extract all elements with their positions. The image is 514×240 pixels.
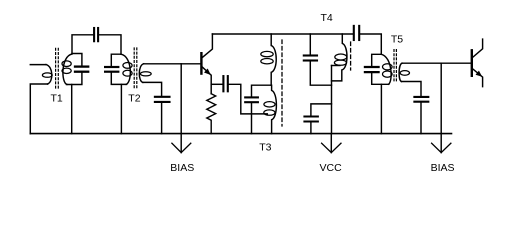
transformer T2 primary winding	[121, 54, 130, 84]
arrowhead VCC	[322, 143, 341, 152]
wire T4 lower cap branch	[311, 104, 332, 116]
wire T4 upper cap down	[310, 61, 331, 85]
wire T1 secondary to ground	[71, 85, 73, 134]
transformer T5 secondary winding	[399, 63, 402, 81]
transistor Q2 base bar	[471, 50, 473, 76]
transformer T3 core	[281, 40, 283, 126]
wire T5 secondary to Q2 base	[402, 62, 471, 64]
transformer T5 primary winding	[381, 54, 391, 84]
wire T5 tank top	[372, 54, 382, 66]
node input terminal	[30, 64, 46, 66]
wire lower cap to rail	[310, 123, 312, 134]
wire C1 to T2	[99, 35, 121, 54]
resistor R1 emitter	[207, 94, 216, 134]
capacitor C1 coupling	[93, 28, 95, 41]
transformer T1 core	[55, 48, 57, 88]
wire cap to ground rail	[161, 103, 163, 134]
capacitor T4 lower	[304, 116, 318, 118]
arrowhead Q2 emitter	[476, 71, 483, 77]
transformer T2 secondary winding	[139, 64, 143, 83]
wire T2 tank bottom	[111, 73, 126, 85]
svg-text:T4: T4	[321, 12, 333, 24]
wire VCC feed	[330, 134, 332, 153]
wire BIAS feed 2	[440, 63, 442, 152]
svg-text:T3: T3	[259, 142, 271, 154]
capacitor T4 upper	[304, 54, 317, 56]
transistor Q2 collector	[473, 39, 483, 57]
wire T4 tap	[332, 65, 340, 67]
capacitor C emitter bypass	[222, 76, 224, 91]
transformer T4 core	[350, 42, 352, 70]
wire T2 secondary to Q1 base	[144, 63, 201, 65]
wire cap to T5	[360, 34, 381, 54]
wire T1 primary return to ground	[30, 84, 47, 134]
transistor Q2 emitter	[473, 69, 483, 87]
svg-text:BIAS: BIAS	[431, 162, 455, 174]
wire cap to ground	[420, 103, 422, 134]
wire rail to T4 upper cap	[309, 34, 311, 55]
transformer T3 lower winding	[272, 85, 277, 133]
transformer T4 winding	[332, 34, 347, 81]
arrowhead BIAS 2	[432, 143, 451, 152]
svg-text:BIAS: BIAS	[170, 162, 194, 174]
wire T2 secondary bottom to cap	[143, 82, 162, 95]
svg-text:T2: T2	[128, 93, 140, 105]
capacitor T1 tank	[75, 65, 88, 67]
wire T1 secondary up to coupling cap	[72, 35, 93, 54]
capacitor T2 tank	[105, 66, 118, 68]
wire T4 main vertical	[331, 66, 333, 134]
transformer T5 core	[393, 50, 395, 83]
transformer T1 primary winding	[46, 65, 52, 84]
capacitor T2 output to ground	[155, 96, 170, 98]
wire T2 tank top	[111, 54, 121, 66]
wire bypass cap to ground	[229, 84, 267, 114]
wire emitter to bypass cap	[211, 83, 222, 85]
transformer T1 secondary winding	[63, 54, 72, 84]
svg-text:T5: T5	[391, 34, 403, 46]
capacitor T5 output to ground	[414, 96, 428, 98]
wire T5 tank bottom	[372, 73, 389, 84]
capacitor C coupling T4-T5	[353, 26, 355, 40]
capacitor T3 tap bypass	[245, 96, 258, 98]
wire T5 secondary bottom to cap	[402, 82, 422, 96]
svg-text:VCC: VCC	[320, 162, 343, 174]
wire T1 tank top	[72, 54, 82, 66]
wire tap cap to tap	[252, 85, 272, 96]
transistor Q1 base bar	[200, 53, 202, 73]
svg-text:T1: T1	[51, 93, 63, 105]
transistor Q1 emitter	[202, 67, 211, 94]
wire T5 primary to ground	[380, 84, 382, 133]
capacitor T5 tank	[365, 66, 379, 68]
ground rail	[30, 133, 451, 135]
transformer T2 core	[133, 48, 135, 89]
wire BIAS feed 1	[180, 64, 182, 153]
arrowhead Q1 emitter	[204, 69, 211, 76]
wire ground stub T3	[251, 103, 253, 133]
transistor Q1 collector	[202, 34, 212, 58]
wire T2 primary to ground	[120, 84, 122, 133]
arrowhead BIAS 1	[172, 143, 191, 152]
transformer T3 upper winding	[271, 34, 276, 85]
wire T1 tank bottom	[67, 73, 82, 85]
top rail collector to C plate	[212, 33, 352, 35]
